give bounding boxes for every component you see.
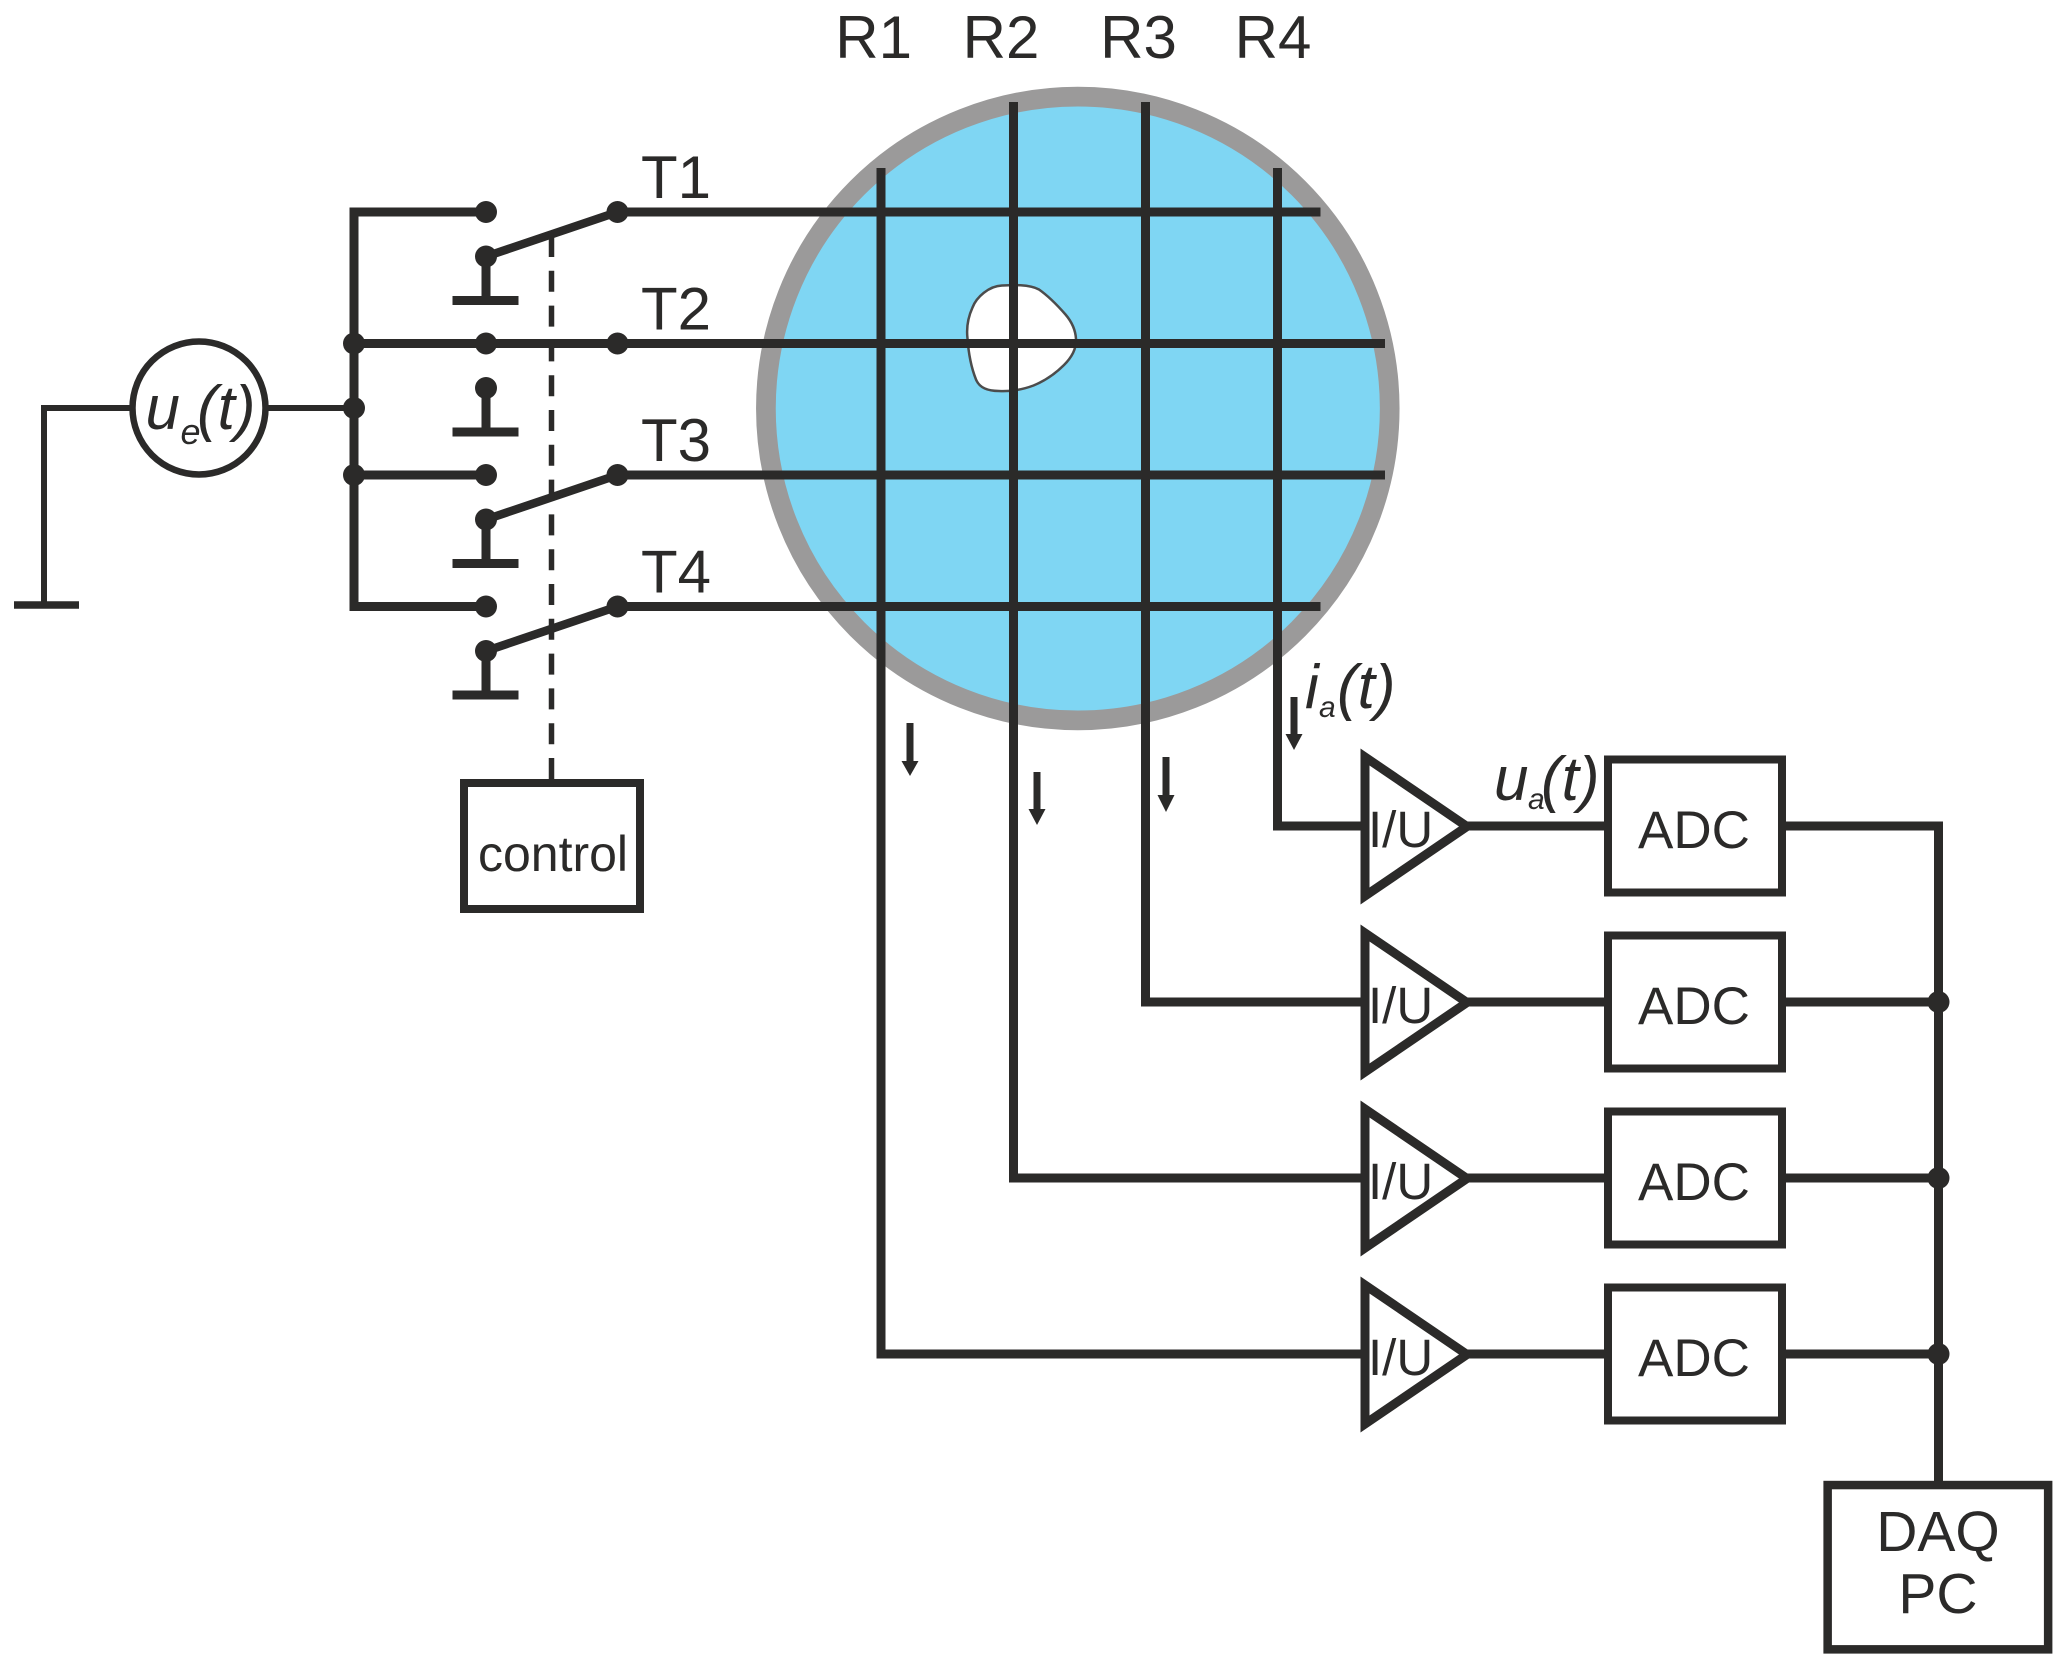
body phantom circle [766, 97, 1390, 721]
svg-text:T1: T1 [641, 144, 711, 211]
node bus T2 junction [343, 333, 365, 355]
wire source to bus [266, 405, 355, 411]
node source-bus junction [343, 397, 365, 419]
node S1 right contact [607, 201, 629, 223]
voltage source U1 u_e(t) [133, 342, 266, 475]
wire I/U2 to ADC2 [1463, 998, 1604, 1007]
svg-text:control: control [478, 826, 628, 882]
wire T4 row electrode [618, 602, 1321, 611]
switch S4 open contact [453, 640, 519, 695]
svg-text:T3: T3 [641, 407, 711, 474]
svg-text:I/U: I/U [1368, 1153, 1433, 1210]
wire column R2 to I/U row 3 [1014, 102, 1366, 1178]
wire control dashed link [549, 236, 555, 779]
op-amp I/U 4 [1365, 1285, 1467, 1424]
switch S4 arm [486, 607, 618, 652]
switch S3 open contact [453, 509, 519, 564]
wire I/U1 to ADC1 [1463, 822, 1604, 831]
wire ADC2 to DAQ bus [1786, 998, 1939, 1007]
op-amp I/U 2 [1365, 933, 1467, 1072]
svg-text:R3: R3 [1100, 4, 1177, 71]
switch S1 open contact [453, 246, 519, 301]
node S3 left contact [475, 464, 497, 486]
svg-text:T2: T2 [641, 276, 711, 343]
svg-text:(t): (t) [1337, 653, 1396, 722]
wire ADC1 to DAQ bus [1786, 826, 1939, 1481]
wire bus stub T2 [354, 339, 486, 348]
svg-text:u: u [146, 374, 180, 443]
op-amp I/U 3 [1365, 1109, 1467, 1248]
svg-text:I/U: I/U [1368, 801, 1433, 858]
wire bus stub T3 [354, 471, 486, 480]
svg-text:(t): (t) [1541, 745, 1600, 814]
svg-text:ADC: ADC [1638, 1153, 1750, 1212]
svg-text:PC: PC [1898, 1562, 1977, 1626]
wire T1 row electrode [618, 208, 1321, 217]
svg-text:ADC: ADC [1638, 977, 1750, 1036]
ground [44, 408, 133, 602]
node S1 left contact [475, 201, 497, 223]
ADC box 4 [1608, 1288, 1782, 1421]
wire ADC4 to DAQ bus [1786, 1350, 1939, 1359]
svg-text:(t): (t) [197, 374, 256, 443]
svg-text:u: u [1494, 745, 1528, 814]
node bus row2 junction [1928, 991, 1950, 1013]
control box [464, 783, 640, 909]
wire I/U4 to ADC4 [1463, 1350, 1604, 1359]
ADC box 2 [1608, 936, 1782, 1069]
op-amp I/U 1 [1365, 757, 1467, 896]
wire I/U3 to ADC3 [1463, 1174, 1604, 1183]
svg-text:I/U: I/U [1368, 977, 1433, 1034]
svg-text:R2: R2 [963, 4, 1040, 71]
node S4 left contact [475, 596, 497, 618]
wire column R1 to I/U row 4 [881, 168, 1365, 1354]
current arrow R1 [902, 723, 919, 776]
wire ADC3 to DAQ bus [1786, 1174, 1939, 1183]
svg-text:T4: T4 [641, 539, 711, 606]
switch S1 arm [486, 212, 618, 257]
node bus row4 junction [1928, 1343, 1950, 1365]
wire column R4 to I/U row 1 [1278, 168, 1366, 826]
node S3 right contact [607, 464, 629, 486]
svg-text:R1: R1 [835, 4, 912, 71]
node S2 right contact [607, 333, 629, 355]
DAQ PC box [1828, 1485, 2048, 1649]
node bus T3 junction [343, 464, 365, 486]
current arrow R3 [1158, 757, 1175, 812]
svg-text:I/U: I/U [1368, 1329, 1433, 1386]
node bus row3 junction [1928, 1167, 1950, 1189]
current arrow R4 i_a [1286, 697, 1303, 750]
ADC box 1 [1608, 760, 1782, 893]
svg-text:R4: R4 [1235, 4, 1312, 71]
wire T3 row electrode [618, 471, 1386, 480]
ADC box 3 [1608, 1112, 1782, 1245]
switch S2 open contact [453, 377, 519, 432]
svg-text:ADC: ADC [1638, 1329, 1750, 1388]
wire column R3 to I/U row 2 [1146, 102, 1366, 1002]
node S4 right contact [607, 596, 629, 618]
svg-text:a: a [1319, 691, 1336, 724]
svg-text:ADC: ADC [1638, 801, 1750, 860]
switch S3 arm [486, 475, 618, 520]
wire T2 row electrode [486, 339, 1385, 348]
inhomogeneity blob [967, 285, 1076, 391]
wire bus [354, 212, 486, 607]
svg-text:DAQ: DAQ [1876, 1500, 2000, 1564]
node S2 left contact [475, 333, 497, 355]
current arrow R2 [1029, 772, 1046, 825]
